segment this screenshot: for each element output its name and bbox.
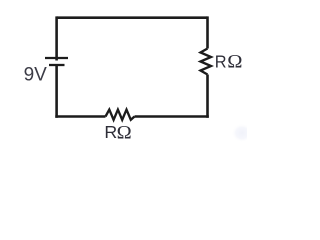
- svg-text:R: R: [215, 52, 227, 71]
- resistor R2 (bottom, zigzag): [106, 110, 135, 120]
- resistor R1 (right side, zigzag): [201, 49, 212, 75]
- battery B1 bottom plate: [49, 64, 65, 66]
- battery B1 top plate: [45, 57, 68, 59]
- wire right lower: [206, 75, 209, 118]
- svg-text:Ω: Ω: [117, 122, 132, 144]
- wire top: [57, 16, 208, 19]
- label RΩ (bottom resistor value): [104, 122, 117, 142]
- wire left upper: [55, 16, 58, 60]
- svg-text:9V: 9V: [24, 64, 48, 85]
- wire bottom left: [55, 115, 105, 118]
- wire left lower: [55, 65, 58, 118]
- svg-text:Ω: Ω: [227, 51, 242, 72]
- svg-text:R: R: [104, 122, 117, 142]
- wire bottom right: [135, 115, 209, 118]
- label RΩ (right resistor value): [215, 52, 227, 71]
- wire right upper: [206, 16, 209, 48]
